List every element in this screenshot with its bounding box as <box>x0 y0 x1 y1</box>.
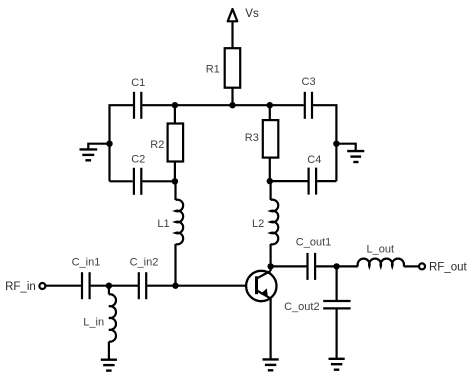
capacitor C4 <box>309 168 317 195</box>
svg-text:C1: C1 <box>131 77 145 89</box>
wire R2 to C2 line <box>174 162 176 182</box>
svg-text:R1: R1 <box>206 63 220 75</box>
svg-text:R2: R2 <box>150 139 164 151</box>
svg-text:RF_in: RF_in <box>5 281 36 293</box>
node L_in top <box>106 283 112 289</box>
transistor Q1 collector slant <box>257 271 271 278</box>
inductor L_in <box>109 294 116 341</box>
wire C_out2 to ground <box>336 309 338 358</box>
wire L1 to base line <box>174 244 176 286</box>
wire L_out to RF_out <box>404 265 419 267</box>
svg-text:C_out2: C_out2 <box>284 301 319 313</box>
inductor L2 <box>271 200 279 245</box>
ground left bars <box>80 149 98 160</box>
transistor Q1 base bar <box>255 276 258 294</box>
node R3 top <box>267 102 273 108</box>
inductor L_out <box>358 259 404 267</box>
capacitor C3 <box>305 92 312 119</box>
wire R2 junction down to L1 <box>174 181 176 200</box>
svg-text:C4: C4 <box>307 154 321 166</box>
node R1 bottom <box>229 102 235 108</box>
capacitor C1 <box>134 92 141 119</box>
svg-text:L_out: L_out <box>367 243 395 255</box>
power Vs arrow <box>228 9 238 21</box>
wire L_in to ground <box>108 342 110 360</box>
capacitor C_out1 <box>308 253 316 280</box>
svg-text:Vs: Vs <box>245 8 259 20</box>
wire top line middle segment <box>142 104 303 106</box>
svg-text:C_in2: C_in2 <box>130 256 159 268</box>
wire L2 to collector <box>270 244 272 271</box>
node base <box>172 283 178 289</box>
wire C_out1 to node <box>316 265 358 267</box>
svg-text:R3: R3 <box>245 132 259 144</box>
capacitor C_out2 <box>323 301 350 308</box>
wire top line to R2 <box>174 105 176 123</box>
resistor R1 <box>225 48 241 87</box>
terminal RF_in <box>39 283 45 289</box>
inductor L1 <box>176 200 184 245</box>
ground right bars <box>347 151 364 162</box>
ground right stub <box>336 144 355 151</box>
svg-text:C2: C2 <box>131 153 145 165</box>
capacitor C_in1 <box>82 272 90 299</box>
svg-text:RF_out: RF_out <box>429 261 468 273</box>
wire R3 junction down to L2 <box>270 181 272 200</box>
ground emitter <box>263 359 279 370</box>
resistor R3 <box>263 120 279 158</box>
svg-text:L1: L1 <box>157 218 169 230</box>
wire collector to C_out1 <box>271 265 307 267</box>
capacitor C_in2 <box>139 272 146 299</box>
node R2 top <box>172 102 178 108</box>
wire node down to C_out2 <box>336 266 338 300</box>
capacitor C2 <box>134 168 141 195</box>
wire L_in drop <box>108 286 110 295</box>
node R2 bottom <box>172 178 178 184</box>
wire C_in1 to node <box>91 285 138 287</box>
wire C4 line left <box>270 180 308 182</box>
wire R1 to top line <box>231 88 233 106</box>
wire top line left segment <box>110 105 134 181</box>
transistor Q1 body <box>246 271 276 301</box>
ground left stub <box>88 144 109 150</box>
ground L_in <box>101 360 117 371</box>
wire top line right segment <box>313 105 336 181</box>
wire C_in2 to base node <box>147 285 246 287</box>
node dots <box>106 102 340 289</box>
svg-text:C_out1: C_out1 <box>296 236 331 248</box>
resistor R2 <box>168 124 184 162</box>
node collector <box>267 263 273 269</box>
wire C2 to R2 bottom <box>142 180 175 182</box>
node R3 bottom <box>267 178 273 184</box>
wire RF_in to C_in1 <box>46 285 81 287</box>
wire C4 line right <box>317 180 336 182</box>
wire emitter down <box>270 298 272 359</box>
svg-text:L2: L2 <box>252 218 264 230</box>
node ground right <box>333 141 339 147</box>
node C_out2 top <box>333 263 339 269</box>
transistor Q1 emitter arrow <box>260 288 267 295</box>
ground C_out2 <box>329 359 345 370</box>
wire R3 to C4 line <box>269 158 271 182</box>
svg-text:C_in1: C_in1 <box>72 256 101 268</box>
wire C2 line <box>110 180 133 182</box>
transistor Q1 emitter slant <box>257 291 271 299</box>
svg-text:C3: C3 <box>302 76 316 88</box>
node ground left <box>106 141 112 147</box>
wire Vs to R1 <box>231 21 233 48</box>
svg-text:L_in: L_in <box>83 317 104 329</box>
terminal RF_out <box>419 263 425 269</box>
wire top line to R3 <box>269 105 271 120</box>
